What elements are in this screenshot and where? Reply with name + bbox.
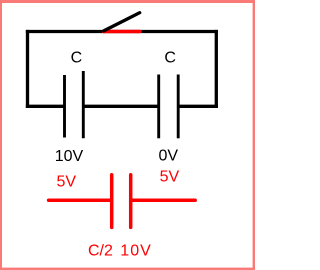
switch S1 closed-contact segment (red) (104, 30, 140, 34)
svg-text:10V: 10V (120, 243, 151, 260)
capacitor C2 (right) (159, 75, 179, 139)
svg-text:0V: 0V (159, 147, 179, 164)
svg-text:C: C (71, 49, 83, 66)
wire: bottom conductor, middle segment between capacitors (83, 105, 158, 108)
wire: bottom conductor, left segment (26, 105, 65, 108)
svg-text:C: C (164, 50, 176, 67)
wire: top conductor (26, 30, 218, 33)
switch S1 arm (104, 13, 140, 31)
svg-text:C/2: C/2 (88, 243, 113, 260)
svg-text:5V: 5V (160, 168, 180, 185)
svg-text:10V: 10V (55, 148, 84, 165)
capacitor C1 (left) (65, 71, 84, 138)
capacitor C/2 equivalent (red) (49, 175, 196, 228)
svg-text:5V: 5V (57, 174, 77, 191)
wire: left vertical conductor (26, 30, 29, 108)
wire: right vertical conductor (215, 30, 218, 108)
wire: bottom conductor, right segment (178, 105, 218, 108)
